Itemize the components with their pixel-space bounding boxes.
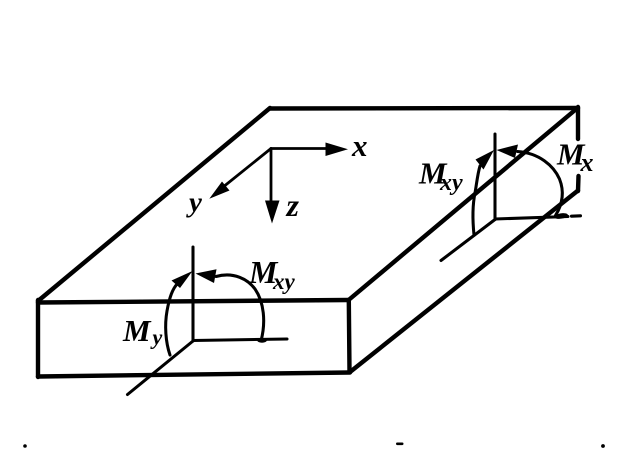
svg-text:x: x (351, 128, 368, 163)
svg-text:y: y (186, 187, 202, 219)
svg-text:xy: xy (439, 170, 463, 196)
svg-text:xy: xy (272, 269, 296, 294)
svg-text:z: z (286, 187, 300, 223)
svg-text:x: x (580, 148, 594, 177)
svg-text:M: M (122, 313, 152, 348)
svg-text:y: y (150, 325, 163, 350)
